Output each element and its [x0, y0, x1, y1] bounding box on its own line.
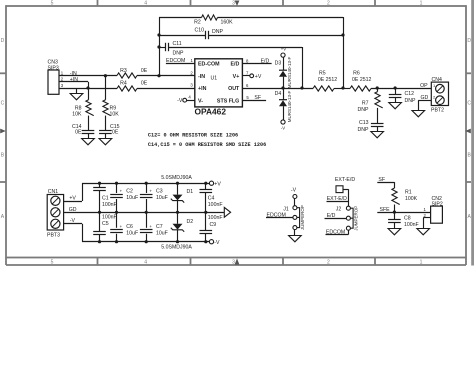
node C4/C9 rails [204, 182, 207, 185]
resistor R8 10K [72, 88, 93, 117]
svg-text:0E: 0E [75, 130, 82, 136]
capacitor C14 0E [72, 116, 94, 136]
svg-text:10uF: 10uF [156, 230, 168, 236]
connector CN2 SIP2 [424, 196, 443, 223]
wire CN3 pin2 jog down to +IN row [59, 82, 89, 89]
svg-text:5.0SMDJ90A: 5.0SMDJ90A [161, 244, 192, 250]
svg-text:R1: R1 [405, 189, 412, 195]
resistor R2 160K [159, 15, 343, 26]
svg-text:DNP: DNP [212, 29, 223, 35]
capacitor C9 100nF [200, 212, 223, 241]
svg-text:V-: V- [198, 98, 203, 104]
net EDCOM at J2 pin3 [326, 230, 349, 236]
testpoint EXT-E/D [335, 177, 355, 193]
wire R3 to U1 pin2 [137, 75, 195, 77]
ground at CN2 [417, 229, 430, 235]
svg-text:160K: 160K [220, 20, 233, 26]
resistor R6 0E 2512 [350, 70, 371, 91]
net E/D at U1 pin8 [242, 58, 271, 64]
svg-text:PBT2: PBT2 [431, 108, 444, 114]
ground under C15 [99, 133, 112, 145]
net SF wire [377, 177, 394, 183]
svg-text:0E 2512: 0E 2512 [318, 77, 337, 83]
capacitor C10 DNP [159, 28, 343, 40]
svg-text:R2: R2 [194, 20, 201, 26]
net E/D at J2 pin2 [325, 213, 347, 219]
svg-text:3: 3 [232, 1, 235, 7]
ground at CN3 pin3 [70, 88, 83, 100]
svg-text:JUMPEROP: JUMPEROP [300, 205, 305, 230]
svg-text:+V: +V [69, 195, 76, 201]
capacitor C6 10uF [110, 212, 138, 241]
svg-text:2: 2 [327, 259, 330, 265]
svg-text:+IN: +IN [70, 77, 78, 83]
svg-text:DNP: DNP [358, 107, 369, 113]
svg-text:R7: R7 [362, 100, 369, 106]
svg-text:D1: D1 [187, 189, 194, 195]
svg-text:OPA462: OPA462 [195, 107, 227, 117]
svg-text:C13: C13 [359, 120, 369, 126]
svg-text:-V: -V [291, 187, 297, 193]
svg-text:J2: J2 [336, 207, 342, 213]
svg-text:2: 2 [327, 1, 330, 7]
op-amp U1 OPA462 [195, 59, 243, 117]
svg-text:4: 4 [144, 1, 147, 7]
off-page arrow GD [224, 207, 230, 217]
svg-text:100nF: 100nF [102, 202, 117, 208]
svg-text:+V: +V [255, 74, 262, 80]
svg-text:100nF: 100nF [404, 222, 419, 228]
svg-text:4: 4 [144, 259, 147, 265]
svg-text:STS FLG: STS FLG [217, 98, 239, 104]
node D1/D2 rails [176, 182, 179, 185]
net EDCOM at J1 pin2 [266, 212, 293, 218]
wire CN1 pin3 to -V rail [64, 224, 83, 242]
svg-text:C5: C5 [102, 221, 109, 227]
svg-text:5.0SMDJ90A: 5.0SMDJ90A [161, 175, 192, 181]
power +V at U1 pin7 [242, 71, 261, 81]
svg-text:-IN: -IN [198, 74, 205, 80]
capacitor C2 10uF [110, 183, 138, 212]
svg-text:U1: U1 [211, 76, 218, 82]
svg-text:C10: C10 [194, 28, 204, 34]
svg-text:10K: 10K [72, 111, 82, 117]
svg-text:100nF: 100nF [208, 202, 223, 208]
wire feedback left vertical [159, 17, 161, 76]
wire -V to J1 pin1 [294, 199, 296, 206]
svg-text:OP: OP [420, 83, 428, 89]
svg-text:J1: J1 [283, 206, 289, 212]
svg-text:C4: C4 [208, 195, 215, 201]
svg-text:C: C [1, 101, 5, 107]
capacitor C7 10uF [140, 212, 168, 241]
svg-text:E/D: E/D [230, 62, 239, 68]
resistor R4 0E [117, 80, 148, 91]
capacitor C12 DNP [389, 88, 416, 104]
svg-text:10uF: 10uF [156, 195, 168, 201]
svg-text:C7: C7 [156, 224, 163, 230]
wire R5 to R6 [334, 88, 350, 90]
capacitor C1 100nF [93, 183, 117, 212]
svg-text:C11: C11 [173, 41, 182, 47]
node C11 loop on OUT [300, 86, 303, 89]
svg-text:-V: -V [281, 126, 285, 131]
wire feedback right vertical [343, 17, 345, 88]
svg-text:D2: D2 [187, 219, 194, 225]
svg-text:+V: +V [281, 47, 287, 52]
wire CN4 pin2 GD [418, 100, 431, 110]
resistor R3 0E [117, 68, 148, 78]
svg-text:C6: C6 [126, 224, 133, 230]
svg-text:MURS140-13-F: MURS140-13-F [287, 90, 292, 122]
power -V at U1 pin4 [177, 94, 195, 104]
TVS diode D1 5.0SMDJ90A [161, 175, 193, 213]
svg-text:5: 5 [51, 259, 54, 265]
svg-text:C1: C1 [102, 196, 109, 202]
power -V rail terminal [209, 240, 220, 246]
node OUT at D3/D4 [281, 86, 284, 89]
wire CN1 pin1 to +V rail [64, 183, 83, 201]
ground under C8 [388, 222, 401, 235]
connector CN3 SIP3 [48, 60, 79, 95]
svg-text:EXT-E/D: EXT-E/D [335, 177, 355, 183]
svg-text:JUMPEROP: JUMPEROP [353, 206, 358, 231]
net EXT-E/D at J2 pin1 [327, 196, 349, 202]
capacitor C3 10uF [140, 183, 168, 212]
wire R6 to CN4 [371, 88, 431, 90]
node C2/C6 rails [115, 182, 118, 185]
svg-text:C12= 0 OHM RESISTOR SIZE 1206: C12= 0 OHM RESISTOR SIZE 1206 [148, 133, 238, 139]
svg-text:MURS140-13-F: MURS140-13-F [287, 56, 292, 88]
diode D4 MURS140-13-F [275, 88, 293, 122]
svg-text:-V: -V [177, 98, 183, 104]
wire +V rail [82, 183, 209, 185]
svg-text:0E 2512: 0E 2512 [352, 77, 371, 83]
svg-text:+V: +V [214, 181, 221, 187]
wire -V rail [82, 241, 209, 243]
svg-text:C12: C12 [405, 91, 415, 97]
power -V above J1 [291, 187, 297, 198]
node feedback tap on -IN row [157, 74, 160, 77]
power +V above D3 [281, 47, 287, 58]
svg-text:D4: D4 [275, 91, 282, 97]
ground at CN4 [412, 111, 425, 117]
svg-text:1: 1 [420, 1, 423, 7]
svg-text:C14,C15 = 0 OHM RESISTOR SMD S: C14,C15 = 0 OHM RESISTOR SMD SIZE 1206 [148, 142, 266, 148]
node C10 left [157, 33, 160, 36]
capacitor C13 DNP [358, 108, 384, 133]
node junction +IN row x88 [86, 86, 89, 89]
svg-text:5: 5 [51, 1, 54, 7]
svg-text:C: C [467, 101, 471, 107]
svg-text:0E: 0E [141, 80, 148, 86]
svg-text:D: D [1, 38, 5, 44]
node C12 on OUT [394, 86, 397, 89]
svg-text:R6: R6 [353, 70, 360, 76]
svg-text:V+: V+ [233, 74, 240, 80]
svg-text:C2: C2 [126, 189, 133, 195]
svg-text:C8: C8 [404, 215, 411, 221]
wire C11 loop right vertical to OUT [302, 47, 304, 88]
net SFE wire [377, 207, 430, 213]
svg-text:10uF: 10uF [126, 195, 138, 201]
svg-text:3: 3 [232, 259, 235, 265]
resistor R1 100K [392, 182, 418, 212]
svg-text:-IN: -IN [70, 71, 77, 77]
power +V rail terminal [209, 181, 221, 187]
wire testpoint to J2 pin1 [343, 189, 349, 206]
svg-text:D: D [467, 38, 471, 44]
wire J1 pin3 to ground [294, 230, 296, 236]
ground under C12 [389, 98, 402, 109]
capacitor C5 100nF [93, 212, 117, 241]
capacitor C8 100nF [388, 212, 419, 228]
svg-text:100K: 100K [405, 196, 418, 202]
TVS diode D2 5.0SMDJ90A [161, 212, 193, 250]
svg-text:DNP: DNP [173, 51, 184, 57]
svg-text:100nF: 100nF [102, 214, 117, 220]
power -V below D4 [281, 120, 285, 131]
diode D3 MURS140-13-F [275, 56, 293, 88]
connector CN1 PBT3 [47, 189, 64, 239]
svg-text:1: 1 [420, 259, 423, 265]
wire U1 OUT [242, 88, 313, 90]
capacitor C15 0E [99, 116, 120, 136]
wire GD rail [64, 212, 225, 214]
svg-text:C3: C3 [156, 189, 163, 195]
svg-text:10K: 10K [110, 111, 120, 117]
node C10 right [341, 33, 344, 36]
svg-text:+IN: +IN [198, 86, 207, 92]
node C11 left [157, 45, 160, 48]
capacitor C11 DNP [159, 41, 302, 56]
svg-text:R5: R5 [319, 70, 326, 76]
ground at J1 [289, 236, 302, 242]
svg-text:10uF: 10uF [126, 230, 138, 236]
wire CN3 pin3 / +IN row [59, 88, 117, 90]
resistor R5 0E 2512 [313, 70, 337, 91]
node R9 on -IN row [104, 74, 107, 77]
jumper J2 JUMPEROP [336, 206, 359, 231]
node R7 on OUT [376, 86, 379, 89]
net SF at U1 pin5 [242, 95, 266, 101]
svg-text:ED-COM: ED-COM [198, 62, 220, 68]
svg-text:DNP: DNP [358, 127, 369, 133]
svg-text:R4: R4 [120, 80, 127, 86]
svg-text:0E: 0E [141, 68, 148, 74]
wire CN3 pin1 to -IN row [59, 75, 117, 77]
svg-text:OUT: OUT [228, 86, 240, 92]
resistor R9 10K [103, 76, 119, 118]
node C3/C7 rails [145, 182, 148, 185]
net EDCOM at U1 pin1 [166, 58, 195, 64]
svg-text:0E: 0E [112, 130, 119, 136]
node C1/C5 rails [98, 182, 101, 185]
wire R4 to U1 pin3 [137, 88, 195, 90]
jumper J1 JUMPEROP [283, 205, 305, 230]
svg-text:C9: C9 [210, 222, 217, 228]
svg-text:100nF: 100nF [208, 215, 223, 221]
svg-text:D3: D3 [275, 60, 282, 66]
resistor R7 DNP [358, 88, 383, 113]
node SFE junction [393, 211, 396, 214]
svg-text:PBT3: PBT3 [47, 233, 60, 239]
connector CN4 PBT2 [431, 77, 449, 114]
node feedback on OUT [341, 86, 344, 89]
svg-text:DNP: DNP [405, 98, 416, 104]
wire CN2 pin2 to ground [423, 218, 430, 229]
svg-text:-V: -V [214, 240, 220, 246]
ground under C14 [82, 133, 95, 145]
ground under C13 [371, 126, 384, 138]
svg-text:EDCOM: EDCOM [326, 230, 345, 236]
capacitor C4 100nF [200, 183, 223, 212]
